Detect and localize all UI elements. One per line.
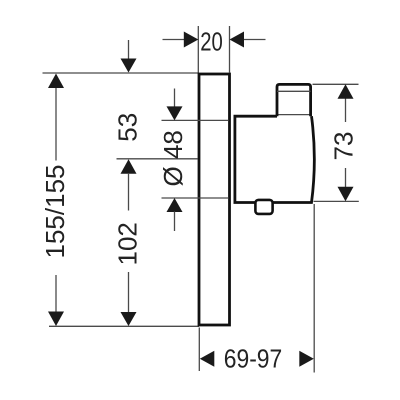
tangent line diameter 48 bottom bbox=[162, 197, 229, 199]
extension line 73 top bbox=[313, 83, 359, 85]
svg-text:53: 53 bbox=[113, 113, 143, 142]
svg-text:69-97: 69-97 bbox=[224, 345, 282, 374]
valve body bbox=[235, 116, 314, 202]
dimension 69-97 arrow left bbox=[200, 351, 215, 367]
extension line 20-right bbox=[229, 26, 231, 73]
svg-text:Ø 48: Ø 48 bbox=[158, 130, 188, 186]
dimension diameter48 arrow top bbox=[167, 106, 183, 120]
tangent line diameter 48 top bbox=[162, 119, 229, 121]
dimension 20 line left bbox=[163, 39, 187, 41]
svg-text:102: 102 bbox=[113, 222, 143, 265]
dimension 155/155 arrow top bbox=[48, 74, 64, 89]
extension line 73 bottom bbox=[314, 200, 359, 202]
dimension 53/102 shared arrow at axis bbox=[121, 159, 137, 174]
extension line 69-97 left bbox=[198, 328, 200, 372]
dimension 155/155 line bbox=[55, 75, 57, 161]
dimension 53 arrow top bbox=[121, 59, 137, 73]
dimension 155/155 arrow bottom bbox=[48, 312, 64, 327]
extension line 155 top bbox=[43, 72, 200, 74]
svg-text:20: 20 bbox=[200, 27, 223, 56]
dimension 102 arrow bottom bbox=[121, 312, 137, 326]
dimension 20 line right bbox=[242, 39, 266, 41]
center line of cartridge bbox=[117, 158, 198, 160]
handle knob seam bbox=[277, 90, 311, 92]
dimension 20 arrow right bbox=[230, 32, 245, 48]
dimension diameter48 tail top bbox=[174, 89, 176, 108]
extension line 155 bottom bbox=[49, 325, 199, 327]
dimension 102 tail lower bbox=[128, 272, 130, 313]
dimension 53 tail top bbox=[128, 40, 130, 60]
extension line 69-97 right bbox=[313, 204, 315, 373]
dimension 20 arrow left bbox=[184, 32, 199, 48]
dimension 102 tail upper bbox=[128, 173, 130, 211]
dimension 73 arrow bottom bbox=[338, 187, 354, 202]
svg-text:155/155: 155/155 bbox=[40, 165, 70, 259]
handle knob bbox=[277, 84, 311, 116]
dimension 73 tail top bbox=[345, 97, 347, 122]
dimension diameter48 arrow bottom bbox=[167, 198, 183, 212]
wall plate escutcheon bbox=[199, 74, 230, 325]
extension line 20-left bbox=[197, 26, 199, 73]
dimension diameter48 tail bottom bbox=[174, 212, 176, 232]
body top seam under handle bbox=[277, 114, 311, 116]
dimension 73 arrow top bbox=[338, 84, 354, 99]
bottom tab bbox=[255, 200, 272, 214]
dimension 69-97 arrow right bbox=[299, 351, 314, 367]
dimension 73 tail bottom bbox=[345, 168, 347, 188]
svg-text:73: 73 bbox=[329, 132, 359, 161]
